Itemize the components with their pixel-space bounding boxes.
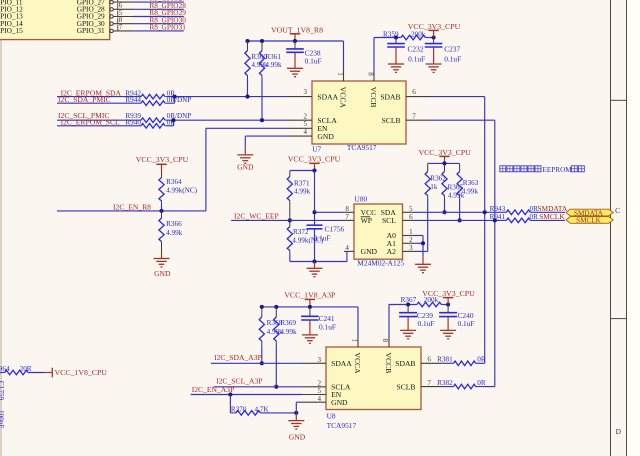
svg-text:SDAA: SDAA [317,92,338,101]
ground symbol under EEPROM rail [314,262,316,269]
junction A1/ground vertical [421,241,425,245]
ground below C237 [433,48,435,64]
svg-text:8: 8 [366,72,374,76]
svg-text:6: 6 [412,88,416,96]
svg-text:VCCB: VCCB [369,87,378,108]
wire EN down to R370 [229,395,231,413]
sheet border left line [0,0,2,456]
svg-text:0R: 0R [477,379,486,387]
junction row C / row D [171,118,175,122]
junction VCC pin8 [312,210,316,214]
svg-text:GPIO_15: GPIO_15 [0,26,23,35]
svg-text:0.1uF: 0.1uF [444,54,461,63]
svg-text:VCC_1V8_CPU: VCC_1V8_CPU [55,368,108,377]
svg-text:VCC_3V3_CPU: VCC_3V3_CPU [288,154,341,163]
ground below C232 [395,48,397,64]
wire EEPROM SDA row [413,211,507,213]
wire VCC_1V8_A3P rail [262,306,358,308]
wire U80 A2 to R362 [413,250,428,252]
svg-text:C1759: C1759 [0,381,5,401]
svg-text:SCLB: SCLB [397,382,416,391]
svg-text:8: 8 [381,339,389,343]
U80 pin stubs right [403,211,413,213]
svg-text:VCCA: VCCA [338,87,347,109]
U7 pin stubs right [406,96,430,98]
svg-text:SDAB: SDAB [395,359,415,368]
wire I2C_ERPOM_SDA row to U7 SDAA [57,96,141,98]
wire U7 SCLB down to U8 side (net SCLB) [430,119,495,121]
GPIO connector component body (cut off at top-left) [0,0,110,40]
power port VCC_1V8_CPU (bar left) [46,372,53,374]
resistor R364 4.99k(NC) [161,173,163,178]
svg-text:GND: GND [361,247,378,256]
junction EN node [159,209,163,213]
resistor R365 4.99k (SDA pull-up) [444,163,446,171]
svg-text:I2C_ERPOM_SCL: I2C_ERPOM_SCL [61,118,120,127]
wire rail down to U7 VCCA pin 1 [343,41,345,71]
svg-text:0.1uF: 0.1uF [458,319,475,328]
capacitor C239 0.1uF [407,305,409,313]
ground rail under EEPROM [290,261,347,263]
svg-text:C232: C232 [408,45,424,54]
junction rail/C237 [432,35,436,39]
wire U8 SCLB to R382 [445,386,454,388]
svg-text:6: 6 [119,3,123,10]
svg-text:C237: C237 [444,45,460,54]
svg-text:R382: R382 [437,379,453,387]
wire U7 GND pin4 to ground [245,135,288,137]
EEPROM U80 M24M02-A125 body [354,204,403,259]
pin GPIO_31 bubble and stub [110,29,113,32]
wire U7 VCCB pin8 riser [373,38,375,72]
ground below R366 with GND text [161,254,163,259]
svg-text:I2C_EN_R8: I2C_EN_R8 [113,202,151,211]
wire U8 GND pin4 to ground [296,401,302,403]
svg-text:D: D [616,427,622,436]
junction R360/SDA row [245,95,249,99]
svg-text:GND: GND [237,163,254,172]
svg-text:4.99k: 4.99k [294,188,311,196]
svg-text:7: 7 [412,112,416,120]
svg-text:R361: R361 [265,53,281,61]
svg-text:C: C [615,206,620,215]
junction rail/R361 [260,39,264,43]
svg-text:R943: R943 [490,205,506,213]
resistor R940 0R [141,124,165,129]
svg-text:GND: GND [289,433,306,442]
svg-text:R366: R366 [166,220,182,228]
svg-text:8: 8 [345,205,349,213]
svg-text:C1756: C1756 [325,225,345,234]
wire U80 A1 to ground vertical [413,242,424,244]
svg-text:4: 4 [318,395,322,403]
svg-text:4.7K: 4.7K [255,406,270,414]
svg-text:0R: 0R [530,213,539,221]
wire net R8_GPIO31 [133,30,184,32]
svg-text:0.1uF: 0.1uF [408,54,425,63]
wire U8 VCCB 3V3 rail [389,304,417,306]
junction SDA/vertical SDAB [483,210,487,214]
svg-text:0R: 0R [477,356,486,364]
resistor R944 0R/DNP [141,101,165,106]
svg-text:TCA9517: TCA9517 [327,421,357,430]
svg-text:4.99k: 4.99k [280,328,297,336]
svg-text:U8: U8 [327,411,336,420]
wire R381 to SDAB vertical [476,362,485,364]
resistor R359 200k [401,35,426,40]
wire joining R940 up to SCL node [173,120,175,126]
svg-text:4.99k: 4.99k [265,61,282,69]
svg-text:0R/DNP: 0R/DNP [167,96,192,104]
capacitor C241 0.1uF [309,307,311,316]
svg-text:7: 7 [427,379,431,387]
svg-text:5: 5 [409,205,413,213]
capacitor C240 0.1uF [447,305,449,313]
capacitor C238 0.1uF [294,41,296,48]
wire net R8_GPIO28 [133,8,184,10]
svg-text:3: 3 [304,88,308,96]
svg-text:4.99k(NC): 4.99k(NC) [166,187,198,195]
junction R368/SDA_A3P [260,361,264,365]
svg-text:R944: R944 [125,96,141,104]
junction R363/SCL [458,218,462,222]
junction R370/ground node [294,411,298,415]
junction rail/C239 [406,302,410,306]
wire I2C_SCL_PMIC row to U7 SCLA [57,119,141,121]
resistor R361 4.99k [261,41,263,51]
wire rail to U8 VCCA pin1 [357,307,359,338]
resistor R372 4.99k(NC) [287,227,292,251]
resistor R367 200k [417,302,441,307]
svg-text:20R: 20R [20,365,32,373]
svg-text:M24M02-A125: M24M02-A125 [357,259,404,268]
pin GPIO_30 bubble and stub [110,22,113,25]
svg-text:U80: U80 [355,195,368,204]
wire VCC vertical x=314.5 [314,171,316,225]
pin GPIO_27 bubble and stub [110,0,113,3]
wire VOUT_1V8_R8 rail [248,40,344,42]
sheet border right inner line [610,0,612,456]
svg-text:VCC_3V3_CPU: VCC_3V3_CPU [408,22,461,31]
svg-text:R381: R381 [437,356,453,364]
svg-text:200k: 200k [411,30,426,38]
svg-text:1: 1 [409,228,413,236]
IC U8 TCA9517 body [326,347,421,410]
junction ground rail [312,259,316,263]
pin GPIO_29 bubble and stub [110,15,113,18]
svg-text:GND: GND [154,269,171,278]
junction R365/SDA [442,210,446,214]
svg-text:0.1uF: 0.1uF [314,233,331,242]
resistor R360 4.99k [247,41,249,51]
wire R371 rail [290,170,315,172]
junction rail/C232 [394,35,398,39]
svg-text:GPIO_31: GPIO_31 [77,26,105,35]
resistor R943 0R [506,210,530,215]
svg-text:VCCB: VCCB [384,353,393,374]
resistor R941 0R [506,218,530,223]
svg-text:1: 1 [336,72,344,76]
border zone tick y=318 [611,318,627,320]
svg-text:1k: 1k [430,183,438,191]
svg-text:4: 4 [304,128,308,136]
resistor R381 0R [454,361,476,366]
svg-text:VOUT_1V8_R8: VOUT_1V8_R8 [271,25,323,34]
svg-text:R964: R964 [0,365,10,373]
wire U7 EN to pulldown node [206,127,288,129]
resistor R362 1k (A2 pull-up) [427,163,429,171]
svg-text:4.99k: 4.99k [166,229,183,237]
op-amp style IC U7 TCA9517 body [312,81,406,144]
wire pull-up rail [428,162,460,164]
junction rail/R369 [274,305,278,309]
svg-text:I2C_SDA_A3P: I2C_SDA_A3P [214,353,262,362]
svg-text:A2: A2 [387,247,396,256]
U8 pin stubs right [421,362,445,364]
svg-text:GND: GND [331,398,348,407]
area outside sheet (right) [627,0,640,456]
svg-text:4.99k: 4.99k [462,188,479,196]
capacitor C1756 0.1uF [307,224,323,226]
ground below C239 [407,317,409,331]
ground below C238 [294,53,296,68]
svg-text:R941: R941 [490,213,506,221]
junction rail/C240 [446,302,450,306]
resistor R368 4.99k [261,307,263,317]
sheet border right outer line [626,0,628,456]
junction R361/SCL row [260,118,264,122]
junction rail/R368 [260,305,264,309]
svg-text:I2C_SDA_PMIC: I2C_SDA_PMIC [58,95,111,104]
resistor R370 4.7K [230,412,236,414]
junction R371-R372 / WP wire [288,218,292,222]
svg-text:1: 1 [350,339,358,343]
wire EEPROM SCL row [413,219,507,221]
wire net R8_GPIO27 [133,1,184,3]
note text pull-up resistors near EEPROM (Chinese, drawn as glyph boxes) [500,166,506,172]
wire joining R944 up to SDA node [174,97,176,104]
wire I2C_SDA_PMIC row [57,102,141,104]
junction rail/power [312,168,316,172]
wire U80 A0 to ground vertical [413,235,424,237]
svg-text:2: 2 [409,236,413,244]
svg-text:5: 5 [119,10,123,17]
wire I2C_ERPOM_SCL row [57,125,141,127]
svg-text:I2C_WC_EEP: I2C_WC_EEP [234,212,279,221]
svg-text:VCC_1V8_A3P: VCC_1V8_A3P [284,291,336,300]
svg-text:I2C_EN_A3P: I2C_EN_A3P [192,385,235,394]
resistor R382 0R [454,384,476,389]
svg-text:R369: R369 [280,319,296,327]
junction R369/SCL_A3P [274,385,278,389]
svg-text:GND: GND [317,132,334,141]
U80 pin stubs left [344,211,354,213]
svg-text:EEPROM: EEPROM [543,166,573,174]
svg-text:SDAA: SDAA [331,359,352,368]
resistor R363 4.99k (SCL pull-up) [459,163,461,171]
svg-text:SCLB: SCLB [382,116,401,125]
wire I2C_EN_R8 row [57,210,206,212]
svg-text:TCA9517: TCA9517 [347,143,377,152]
resistor R369 4.99k [275,307,277,317]
wire C1756 bottom to ground rail [314,229,316,261]
svg-text:3: 3 [318,356,322,364]
svg-text:SDAB: SDAB [380,92,400,101]
svg-text:SMCLK: SMCLK [539,212,565,221]
svg-text:R364: R364 [166,178,182,186]
resistor R964 20R [5,370,28,375]
U7 pin stubs top [343,71,345,81]
junction SCL/vertical SCLB [493,218,497,222]
svg-text:SMCLK: SMCLK [576,217,602,225]
U8 pin stubs top [357,338,359,348]
U7 pin stubs left [288,96,312,98]
svg-text:R363: R363 [463,179,479,187]
port SMCLK [566,217,613,224]
border zone tick y=100 [611,99,627,101]
svg-text:3: 3 [409,244,413,252]
svg-text:SCL: SCL [382,216,396,225]
wire VCC pin8 of U80 [315,211,345,213]
wire I2C_SCL_A3P row [214,386,302,388]
svg-text:6: 6 [409,213,413,221]
svg-text:VCCA: VCCA [353,353,362,375]
wire VCCB 3V3 rail [374,37,401,39]
svg-text:100nF: 100nF [0,410,5,428]
svg-text:R8_GPIO31: R8_GPIO31 [149,23,186,32]
svg-text:VCC_3V3_CPU: VCC_3V3_CPU [422,289,475,298]
svg-text:2: 2 [304,112,308,120]
svg-text:7: 7 [119,24,123,31]
junction rail/R360 [245,39,249,43]
wire I2C_WC_EEP to WP pin [231,219,344,221]
junction rail/C238 [293,39,297,43]
svg-text:7: 7 [345,213,349,221]
svg-text:5: 5 [304,120,308,128]
svg-text:R370: R370 [231,406,247,414]
wire net R8_GPIO30 [133,23,184,25]
wire R382 to SCLB vertical [476,386,495,388]
wire U8 SDAB to R381 [445,362,454,364]
wire U7 SDAB down to U8 side (net SDAB) [430,96,485,98]
wire U8 VCCB pin8 riser [388,305,390,338]
pin GPIO_28 bubble and stub [110,8,113,11]
svg-text:R371: R371 [294,179,310,187]
ground below C241 [309,321,311,335]
ground below A-pins [422,256,424,264]
wire I2C_SDA_A3P row [211,362,302,364]
svg-text:VCC_3V3_CPU: VCC_3V3_CPU [418,148,471,157]
wire R964 to power port [28,372,46,374]
resistor R942 0R [141,94,165,99]
junction rail/C241 [308,305,312,309]
svg-text:R940: R940 [125,119,141,127]
junction rail/power stem [442,161,446,165]
resistor R371 4.99k [289,171,291,177]
resistor R366 4.99k [161,211,163,218]
wire net R8_GPIO29 [133,16,184,18]
svg-text:0.1uF: 0.1uF [418,319,435,328]
capacitor C237 0.1uF [433,38,435,44]
svg-text:0.1uF: 0.1uF [319,322,336,331]
wire R964 row left [0,372,5,374]
svg-text:4: 4 [345,244,349,252]
port SMDATA [566,209,613,216]
wire U80 GND pin to ground rail [346,251,348,261]
wire I2C_EN_A3P row [191,394,302,396]
svg-text:WP: WP [361,216,372,225]
junction row A / row B [172,95,176,99]
svg-text:0.1uF: 0.1uF [305,56,322,65]
svg-text:6: 6 [427,356,431,364]
resistor R939 0R/DNP [141,118,165,123]
ground below U7 pin4 with GND text [244,147,246,155]
ground below C240 [447,317,449,331]
svg-text:8: 8 [119,17,123,24]
ground below U8 pin4 with GND text [295,413,297,421]
capacitor C232 0.1uF [395,38,397,44]
junction EN/R370 [228,392,232,396]
svg-text:VCC_3V3_CPU: VCC_3V3_CPU [136,155,189,164]
U8 pin stubs left [302,362,326,364]
svg-text:U7: U7 [312,145,321,154]
